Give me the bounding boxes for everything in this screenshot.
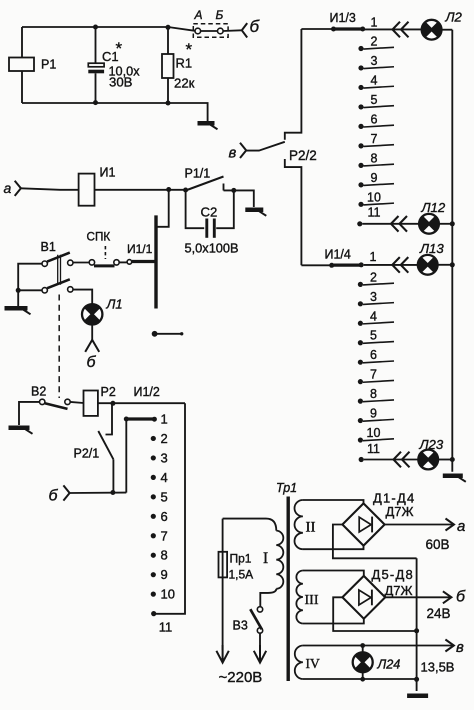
svg-text:5: 5 bbox=[161, 489, 168, 504]
svg-text:а: а bbox=[4, 180, 12, 196]
svg-text:С2: С2 bbox=[201, 205, 218, 220]
lamp Л23 bbox=[418, 450, 438, 470]
terminal б under Л1 bbox=[85, 340, 99, 352]
svg-text:Пр1: Пр1 bbox=[230, 552, 252, 566]
bridge rectifier Д5-Д8 bbox=[342, 576, 385, 619]
switch Р1/1 blade bbox=[186, 177, 224, 191]
И1/2 box right side bbox=[154, 403, 185, 614]
svg-text:в: в bbox=[229, 145, 237, 162]
svg-text:В2: В2 bbox=[31, 385, 46, 399]
contact И1/2 pin 1 bbox=[128, 417, 153, 420]
ground transformer bbox=[407, 694, 428, 699]
switch Р2/1 blade bbox=[98, 431, 113, 459]
wire bridge2 minus to common rail bbox=[333, 597, 416, 631]
wire И1/4 left bus bbox=[285, 159, 302, 265]
svg-text:7: 7 bbox=[371, 132, 378, 146]
node R1 bottom junction bbox=[166, 101, 171, 106]
contact И1/2 pin 11 bbox=[151, 611, 156, 616]
arrow output б bbox=[443, 591, 452, 603]
wire а to И1 bbox=[21, 188, 79, 190]
node C1 top junction bbox=[93, 25, 98, 30]
svg-text:Р1: Р1 bbox=[41, 58, 56, 72]
svg-text:1: 1 bbox=[370, 250, 377, 264]
contact И1/2 pin 4 bbox=[151, 475, 156, 480]
common rail vertical bbox=[416, 558, 418, 691]
svg-text:10: 10 bbox=[367, 190, 381, 204]
svg-text:И1/2: И1/2 bbox=[134, 385, 160, 399]
contact И1/4 pin 11 bbox=[359, 457, 364, 462]
contact И1/2 pin 2 bbox=[151, 436, 156, 441]
wire to terminal б top bbox=[223, 29, 241, 32]
node C2 right top bbox=[231, 188, 236, 193]
svg-text:1,5А: 1,5А bbox=[229, 568, 254, 582]
svg-text:Л2: Л2 bbox=[445, 10, 463, 25]
terminal в bbox=[240, 143, 246, 158]
svg-text:6: 6 bbox=[371, 112, 378, 126]
ground under В2 bbox=[9, 426, 30, 431]
svg-text:9: 9 bbox=[370, 407, 377, 421]
winding III bbox=[296, 571, 303, 624]
svg-text:24В: 24В bbox=[427, 606, 451, 621]
node Л13 bus junction bbox=[450, 262, 455, 267]
svg-text:И1/1: И1/1 bbox=[127, 242, 153, 256]
contact СПК bbox=[89, 260, 94, 265]
contact И1/3 pin 3 bbox=[358, 65, 363, 70]
node Р2/1 top bbox=[110, 401, 115, 406]
svg-text:13,5В: 13,5В bbox=[421, 660, 455, 675]
svg-text:в: в bbox=[456, 639, 464, 656]
relay coil И1 bbox=[79, 174, 95, 206]
wire output б bbox=[385, 596, 450, 598]
contact И1/3 pin 9 bbox=[358, 182, 363, 187]
node Л23 bus junction bbox=[450, 457, 455, 462]
contact И1/3 pin 5 bbox=[358, 104, 363, 109]
contact И1/3 pin 4 bbox=[358, 85, 363, 90]
svg-text:2: 2 bbox=[370, 270, 377, 284]
wire winding III top to bridge 2 bbox=[303, 571, 364, 576]
contact И1/3 pin 10 bbox=[358, 202, 363, 207]
wire winding IV bottom bbox=[303, 678, 417, 680]
svg-text:4: 4 bbox=[370, 309, 377, 323]
wire И1/2 pin1 leg vertical bbox=[125, 419, 127, 493]
winding II bbox=[294, 500, 302, 549]
svg-text:Р2/2: Р2/2 bbox=[289, 148, 317, 163]
wire bridge1 minus to common rail bbox=[333, 525, 417, 559]
node rail winding IV junction bbox=[414, 677, 419, 682]
contact И1/2 pin 9 bbox=[151, 572, 156, 577]
winding IV bbox=[295, 646, 303, 680]
svg-text:И1/4: И1/4 bbox=[325, 248, 351, 262]
fuse Пр1 bbox=[222, 519, 224, 650]
contact И1/4 pin 2 bbox=[358, 282, 363, 287]
svg-text:8: 8 bbox=[161, 548, 168, 563]
contact И1/4 pin 10 bbox=[358, 437, 363, 442]
В1 mechanical link bbox=[58, 255, 61, 285]
wire В1 to СПК bbox=[73, 262, 89, 264]
capacitor C1 bbox=[95, 27, 97, 63]
terminal а bbox=[15, 181, 21, 196]
contact И1/4 pin 6 bbox=[358, 360, 363, 365]
node В1 left junction bbox=[16, 288, 21, 293]
wire И1/3 left bus bbox=[285, 29, 302, 140]
svg-text:IV: IV bbox=[306, 656, 320, 671]
svg-text:Д7Ж: Д7Ж bbox=[385, 583, 413, 598]
svg-text:Л12: Л12 bbox=[421, 200, 446, 215]
terminal б top-right bbox=[242, 23, 247, 37]
node lamp Л24 top bbox=[360, 643, 365, 648]
svg-text:3: 3 bbox=[161, 450, 168, 465]
svg-text:9: 9 bbox=[161, 567, 168, 582]
contact И1/3 pin 8 bbox=[358, 163, 363, 168]
wire Л12 to right bus bbox=[439, 223, 453, 225]
svg-text:Л24: Л24 bbox=[377, 658, 401, 672]
arrow 220V left bbox=[216, 645, 228, 663]
wire winding III bottom to bridge 2 bbox=[303, 619, 364, 624]
wire И1/4 pin11 to lamp Л23 bbox=[364, 459, 419, 461]
lamp Л2 bbox=[422, 20, 442, 40]
svg-text:~220В: ~220В bbox=[219, 669, 263, 686]
wire В1 left side bbox=[18, 264, 42, 306]
И1 armature stub bbox=[152, 331, 158, 337]
node lamp Л24 bottom bbox=[360, 677, 365, 682]
resistor R1 bbox=[167, 27, 169, 54]
svg-text:9: 9 bbox=[371, 171, 378, 185]
switch В1 pole 1 bbox=[42, 261, 47, 266]
connector arrows И1/4 pin11 bbox=[394, 452, 402, 468]
svg-text:а: а bbox=[457, 518, 465, 535]
arrow 220V right bbox=[254, 645, 266, 663]
contact И1/3 pin 2 bbox=[358, 46, 363, 51]
contact И1/2 pin 3 bbox=[151, 455, 156, 460]
svg-text:б: б bbox=[49, 488, 59, 505]
svg-text:6: 6 bbox=[370, 348, 377, 362]
node R1 top junction bbox=[166, 25, 171, 30]
svg-text:5: 5 bbox=[371, 93, 378, 107]
svg-text:И1/3: И1/3 bbox=[330, 11, 356, 25]
winding I (primary) bbox=[223, 519, 277, 531]
svg-text:б: б bbox=[87, 354, 97, 371]
svg-text:22к: 22к bbox=[174, 76, 195, 91]
svg-text:Р2/1: Р2/1 bbox=[74, 447, 100, 461]
node bus tap bbox=[166, 187, 171, 192]
switch Р2/2 blade bbox=[246, 142, 285, 151]
contact И1/3 pin 7 bbox=[358, 143, 363, 148]
wire В2 to Р2 bbox=[70, 402, 83, 403]
svg-text:30В: 30В bbox=[109, 75, 133, 90]
svg-text:1: 1 bbox=[161, 412, 168, 427]
wire winding II bottom to bridge 1 bbox=[303, 546, 364, 550]
svg-text:В3: В3 bbox=[233, 619, 248, 633]
arrow output в bbox=[445, 640, 454, 652]
node rail bridge2 junction bbox=[414, 628, 419, 633]
contact И1/4 pin 3 bbox=[358, 301, 363, 306]
svg-text:5,0х100В: 5,0х100В bbox=[185, 241, 239, 256]
lamp Л1 bbox=[82, 304, 102, 324]
right bus vertical bbox=[451, 30, 453, 472]
svg-text:11: 11 bbox=[368, 206, 381, 220]
switch Р1/1 fixed contact bbox=[223, 184, 225, 191]
node Р1/1 pivot bbox=[183, 188, 188, 193]
connector arrows И1/3 pin1 bbox=[393, 22, 401, 38]
svg-text:б: б bbox=[250, 17, 261, 36]
svg-text:4: 4 bbox=[371, 73, 378, 87]
svg-text:1: 1 bbox=[371, 16, 378, 30]
svg-text:III: III bbox=[305, 593, 319, 608]
contact И1/4 pin 5 bbox=[358, 340, 363, 345]
svg-text:60В: 60В bbox=[426, 537, 450, 552]
node Р2/1 bottom bbox=[110, 490, 115, 495]
transformer core bbox=[287, 497, 290, 682]
contact И1/4 pin 4 bbox=[358, 321, 363, 326]
svg-text:2: 2 bbox=[161, 431, 168, 446]
wire output в (winding IV top) bbox=[303, 645, 453, 647]
svg-text:II: II bbox=[306, 520, 316, 536]
contact И1/4 pin 9 bbox=[358, 418, 363, 423]
svg-text:4: 4 bbox=[161, 470, 168, 485]
svg-text:3: 3 bbox=[371, 54, 378, 68]
wire output а bbox=[385, 524, 453, 526]
contact И1/4 pin 8 bbox=[358, 399, 363, 404]
svg-text:7: 7 bbox=[370, 368, 377, 382]
svg-text:Р2: Р2 bbox=[101, 385, 116, 399]
wire winding II top to bridge 1 bbox=[303, 500, 364, 503]
wire В1 to lamp Л1 bbox=[73, 290, 92, 305]
svg-text:10: 10 bbox=[367, 426, 381, 440]
svg-text:Р1/1: Р1/1 bbox=[185, 167, 211, 181]
switch Р2/1 fixed terminal bbox=[106, 403, 113, 434]
svg-text:СПК: СПК bbox=[87, 231, 111, 244]
svg-text:Б: Б bbox=[216, 8, 224, 22]
svg-text:3: 3 bbox=[370, 290, 377, 304]
contact И1/2 pin 7 bbox=[151, 533, 156, 538]
wire И1/3 pin11 to lamp Л12 bbox=[362, 223, 419, 225]
svg-text:Д7Ж: Д7Ж bbox=[386, 504, 414, 519]
ground under В1 bbox=[5, 306, 28, 311]
relay coil Р2 bbox=[84, 391, 98, 416]
svg-text:8: 8 bbox=[370, 387, 377, 401]
contact И1/3 pin 11 bbox=[357, 221, 362, 226]
wire Л23 to right bus bbox=[438, 459, 452, 461]
bridge rectifier Д1-Д4 bbox=[342, 503, 384, 545]
svg-text:I: I bbox=[263, 550, 268, 567]
wire Р2 to И1/2 box bbox=[98, 402, 185, 404]
wire P1 left branch bbox=[21, 27, 23, 103]
contact И1/2 pin 10 bbox=[151, 592, 156, 597]
wire СПК to И1/1 bbox=[119, 261, 127, 263]
contact И1/1 bbox=[127, 260, 132, 265]
contact И1/2 pin 8 bbox=[151, 553, 156, 558]
wire Л1 to terminal bbox=[91, 325, 93, 341]
svg-text:*: * bbox=[116, 39, 123, 58]
wire И1/3 pin1 to lamp Л2 bbox=[364, 28, 422, 30]
terminal б left bbox=[63, 485, 69, 500]
ground right bus bbox=[443, 474, 463, 479]
wire top-left horizontal bus bbox=[22, 27, 195, 31]
ground at Р1/1 bbox=[245, 208, 263, 213]
svg-text:Л1: Л1 bbox=[106, 297, 123, 312]
wire Л13 to right bus bbox=[438, 264, 453, 266]
svg-text:Л23: Л23 bbox=[419, 437, 444, 452]
svg-text:7: 7 bbox=[161, 528, 168, 543]
node Л12 bus junction bbox=[450, 221, 455, 226]
svg-text:8: 8 bbox=[371, 151, 378, 165]
svg-text:И1: И1 bbox=[100, 166, 116, 180]
wire Л2 to right bus bbox=[442, 29, 453, 31]
svg-text:10: 10 bbox=[161, 587, 175, 602]
armature bus of И1 (thick) bbox=[154, 215, 157, 308]
wire Р1/1 to ground branch bbox=[224, 190, 254, 207]
capacitor C2 bbox=[186, 191, 205, 229]
contact И1/2 pin 5 bbox=[151, 494, 156, 499]
svg-text:6: 6 bbox=[161, 509, 168, 524]
lamp Л24 bbox=[362, 646, 364, 653]
mechanical link В1-В2 (dashed) bbox=[58, 295, 60, 399]
ground top-left bbox=[198, 121, 215, 126]
svg-text:*: * bbox=[186, 40, 193, 59]
wire В3 to 220V arrow bbox=[259, 633, 261, 650]
arrow output а bbox=[446, 519, 455, 531]
wire vertical to armature bus bbox=[158, 190, 169, 227]
svg-text:11: 11 bbox=[367, 442, 380, 456]
connector arrows И1/4 pin1 bbox=[392, 257, 400, 273]
svg-text:Тр1: Тр1 bbox=[276, 481, 297, 495]
svg-text:Л13: Л13 bbox=[419, 241, 444, 256]
node C1 bottom junction bbox=[93, 100, 98, 105]
wire bottom-left horizontal bbox=[22, 103, 208, 121]
svg-text:А: А bbox=[194, 8, 203, 22]
svg-text:11: 11 bbox=[159, 620, 173, 635]
wire б to И1/2 pin1 leg bbox=[70, 492, 127, 494]
wire В2 left to ground bbox=[19, 402, 40, 425]
switch В3 bbox=[257, 607, 262, 612]
lamp Л13 bbox=[418, 255, 438, 275]
contact И1/2 pin 6 bbox=[151, 514, 156, 519]
svg-text:б: б bbox=[456, 589, 466, 606]
svg-text:В1: В1 bbox=[41, 240, 56, 254]
switch В1 pole 2 bbox=[42, 288, 47, 293]
contact И1/4 pin 7 bbox=[358, 379, 363, 384]
wire И1/4 pin1 to lamp Л13 bbox=[364, 264, 418, 266]
contact И1/3 pin 6 bbox=[358, 124, 363, 129]
connector arrows И1/3 pin11 bbox=[391, 216, 399, 232]
svg-text:2: 2 bbox=[371, 34, 378, 48]
lamp Л12 bbox=[419, 214, 439, 234]
wire И1 to Р1/1 bbox=[95, 189, 186, 191]
wire Р2/1 to б wire bbox=[112, 459, 114, 492]
connector contacts А Б bbox=[193, 24, 228, 38]
relay coil P1 bbox=[9, 58, 34, 72]
svg-text:Д5-Д8: Д5-Д8 bbox=[372, 567, 414, 582]
svg-text:5: 5 bbox=[370, 329, 377, 343]
